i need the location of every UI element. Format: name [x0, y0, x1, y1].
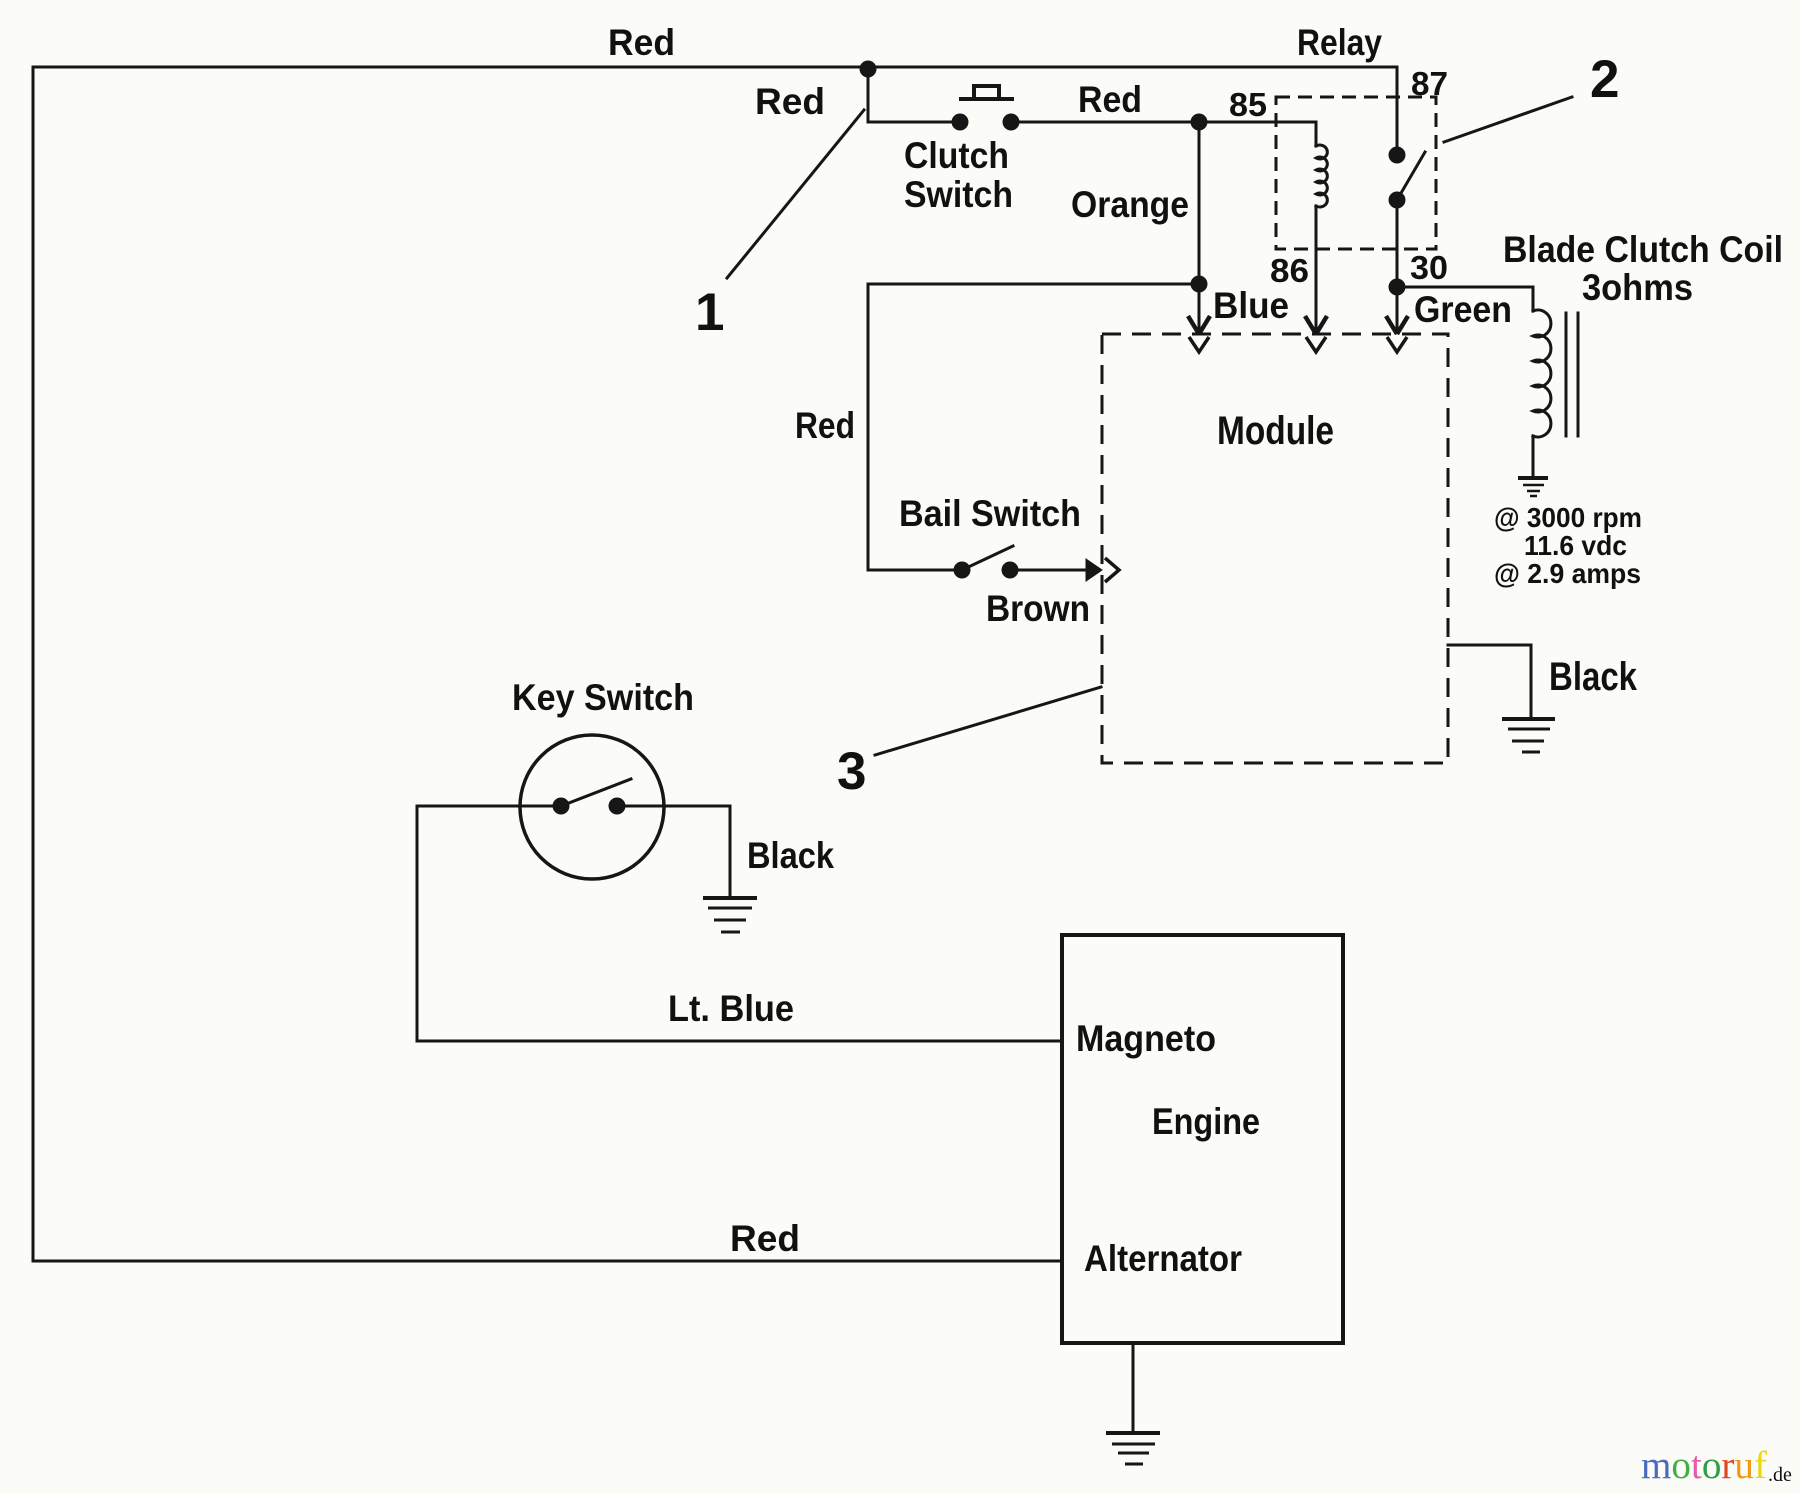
svg-text:Alternator: Alternator — [1084, 1238, 1242, 1279]
svg-text:Black: Black — [1549, 655, 1638, 699]
svg-text:Red: Red — [730, 1218, 800, 1259]
svg-text:Brown: Brown — [986, 588, 1090, 629]
svg-text:Engine: Engine — [1152, 1101, 1260, 1142]
svg-text:3: 3 — [837, 742, 866, 801]
svg-text:Magneto: Magneto — [1076, 1018, 1216, 1059]
svg-text:Blade Clutch Coil: Blade Clutch Coil — [1503, 229, 1783, 270]
svg-text:Black: Black — [747, 835, 834, 876]
svg-text:.de: .de — [1768, 1464, 1792, 1486]
svg-text:87: 87 — [1411, 65, 1448, 102]
svg-text:Module: Module — [1217, 409, 1334, 453]
svg-text:Lt. Blue: Lt. Blue — [668, 988, 794, 1029]
svg-text:85: 85 — [1229, 86, 1267, 123]
svg-text:30: 30 — [1410, 249, 1448, 286]
svg-text:Red: Red — [755, 81, 825, 122]
svg-text:Key Switch: Key Switch — [512, 677, 694, 718]
svg-text:3ohms: 3ohms — [1582, 267, 1693, 308]
svg-text:Orange: Orange — [1071, 184, 1189, 225]
svg-text:Red: Red — [608, 22, 675, 63]
svg-text:Relay: Relay — [1297, 22, 1382, 63]
svg-text:Red: Red — [795, 405, 855, 446]
svg-text:Blue: Blue — [1213, 285, 1289, 326]
svg-text:11.6 vdc: 11.6 vdc — [1524, 530, 1627, 561]
svg-text:@ 3000 rpm: @ 3000 rpm — [1494, 502, 1642, 533]
svg-text:86: 86 — [1270, 252, 1309, 289]
svg-text:2: 2 — [1590, 50, 1619, 109]
svg-text:1: 1 — [695, 283, 724, 342]
svg-text:Green: Green — [1414, 289, 1512, 330]
svg-text:Switch: Switch — [904, 174, 1013, 215]
svg-text:motoruf: motoruf — [1641, 1444, 1767, 1487]
svg-text:Clutch: Clutch — [904, 135, 1009, 176]
svg-text:@ 2.9 amps: @ 2.9 amps — [1494, 558, 1641, 589]
svg-text:Bail Switch: Bail Switch — [899, 493, 1081, 534]
svg-text:Red: Red — [1078, 79, 1142, 120]
